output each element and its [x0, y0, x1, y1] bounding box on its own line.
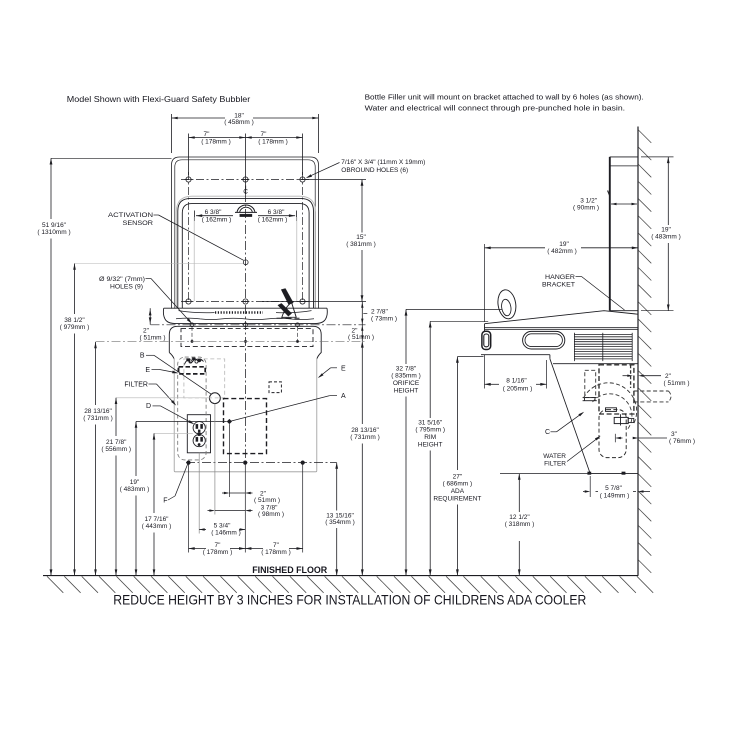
extension line sensor height (gray)	[75, 263, 244, 265]
dashed drain elbow arc outer	[584, 383, 637, 424]
duplex outlet lower receptacle	[193, 435, 205, 447]
dashed water riser	[585, 370, 596, 397]
dimension 12 1/2 apron height	[505, 474, 535, 576]
activation sensor leader	[159, 215, 244, 260]
svg-text:( 458mm ): ( 458mm )	[224, 119, 254, 126]
dimension 2 inch right of basin	[348, 325, 374, 342]
bubbler (side view)	[496, 289, 518, 321]
svg-text:( 381mm ): ( 381mm )	[346, 241, 376, 248]
svg-text:7/16" X 3/4" (11mm X 19mm): 7/16" X 3/4" (11mm X 19mm)	[341, 159, 425, 166]
wall section line	[637, 127, 639, 576]
svg-text:FINISHED FLOOR: FINISHED FLOOR	[252, 565, 327, 575]
svg-text:( 482mm ): ( 482mm )	[547, 248, 577, 255]
apron diagonal	[550, 359, 590, 474]
centerline vertical right holes	[302, 172, 304, 302]
basin bowl scallops	[176, 318, 314, 319]
obround mounting hole bottom-left	[185, 299, 193, 304]
svg-text:( 51mm ): ( 51mm )	[254, 497, 280, 504]
extension line orifice height	[406, 308, 502, 310]
dimension 31 5/16 rim height	[415, 321, 445, 575]
svg-text:( 979mm ): ( 979mm )	[60, 324, 90, 331]
label F	[163, 496, 175, 504]
recess inner wall	[182, 204, 309, 309]
dimension 13 15/16 bottom row height	[325, 463, 355, 576]
leader hanger bracket	[582, 277, 625, 311]
cabinet lower edge line (side)	[553, 363, 638, 365]
leader water filter	[567, 436, 601, 462]
mounting row bottom centerline	[186, 462, 337, 464]
svg-text:6 3/8": 6 3/8"	[268, 209, 285, 216]
svg-text:WATER: WATER	[543, 453, 566, 460]
label B	[140, 353, 154, 360]
svg-text:SENSOR: SENSOR	[123, 220, 154, 227]
extension drop from right hole	[302, 464, 304, 553]
flexi-guard bubbler base dashes	[277, 317, 300, 319]
dimension 38 1/2 sensor height	[60, 264, 90, 576]
push pad end cap	[482, 331, 491, 349]
svg-text:( 51mm ): ( 51mm )	[140, 334, 166, 341]
dimension 32 7/8 orifice height	[391, 309, 421, 575]
svg-text:HANGER: HANGER	[545, 274, 575, 281]
svg-text:( 73mm ): ( 73mm )	[371, 315, 397, 322]
dimension 2 inch (A to center)	[222, 490, 280, 504]
svg-text:( 354mm ): ( 354mm )	[325, 519, 355, 526]
svg-text:2": 2"	[665, 373, 672, 380]
waterline inlet circle B target	[210, 393, 221, 404]
svg-text:RIM: RIM	[424, 434, 436, 441]
svg-text:REDUCE HEIGHT BY 3 INCHES FOR: REDUCE HEIGHT BY 3 INCHES FOR INSTALLATI…	[113, 593, 586, 608]
centerline through top hole row	[181, 179, 310, 181]
cooler mounting hole left	[189, 323, 195, 327]
dimension 3 7/8 (B to center)	[208, 504, 285, 518]
svg-text:B: B	[140, 353, 145, 360]
svg-text:( 90mm ): ( 90mm )	[573, 205, 599, 212]
extension line inlet height (gray)	[116, 397, 210, 399]
extension drop from inlet B	[214, 404, 216, 515]
leader 9/32 holes	[151, 279, 192, 324]
svg-text:8 1/16": 8 1/16"	[506, 378, 527, 385]
duplex outlet upper receptacle	[193, 422, 205, 434]
svg-text:REQUIREMENT: REQUIREMENT	[433, 496, 481, 503]
extension line ada requirement	[457, 356, 483, 358]
obround mounting hole bottom-center	[242, 299, 250, 304]
svg-text:( 556mm ): ( 556mm )	[101, 446, 131, 453]
dimension 21 7/8 inlet height	[101, 398, 131, 576]
svg-text:D: D	[146, 403, 151, 410]
svg-text:27": 27"	[453, 474, 463, 481]
svg-text:HOLES (9): HOLES (9)	[110, 283, 143, 290]
dimension 27 ADA requirement	[433, 357, 481, 576]
extension drop from A point	[228, 424, 230, 497]
hole row connector right	[297, 327, 299, 340]
svg-text:7": 7"	[215, 542, 222, 549]
obround mounting hole bottom-right	[299, 299, 307, 304]
svg-text:BRACKET: BRACKET	[542, 281, 575, 288]
svg-text:( 443mm ): ( 443mm )	[142, 523, 172, 530]
label E left	[145, 367, 159, 374]
bubbler boss (front view)	[235, 205, 257, 217]
dimension 7 inch left hole spacing	[189, 131, 246, 193]
extension line A point height	[136, 421, 227, 423]
dimension 18 inch overall width	[172, 112, 319, 153]
flexi-guard bubbler guard band	[278, 303, 292, 316]
lower mounting hole dot center	[244, 340, 247, 343]
water connection scribble detail	[187, 358, 201, 364]
basin inner curves	[179, 311, 312, 313]
svg-text:Ø 9/32" (7mm): Ø 9/32" (7mm)	[99, 276, 145, 283]
apron step	[549, 355, 551, 359]
svg-text:7": 7"	[204, 131, 211, 138]
bracket clip tick on panel edge	[608, 191, 610, 196]
cooler mounting hole center	[244, 323, 248, 327]
hole row connector left	[191, 327, 193, 340]
svg-text:( 178mm ): ( 178mm )	[258, 139, 288, 146]
obround mounting hole top-right	[299, 177, 307, 182]
svg-text:FILTER: FILTER	[124, 381, 148, 388]
label FILTER	[124, 381, 156, 388]
dimension 6 3/8 left	[195, 209, 234, 224]
label E right	[331, 365, 346, 372]
junction box bold dashed	[179, 367, 206, 374]
svg-text:( 51mm ): ( 51mm )	[664, 380, 690, 387]
leader C	[557, 412, 585, 432]
riser flange marks	[583, 398, 597, 401]
lower mounting hole dot right	[296, 340, 299, 343]
extension line outlet height (gray)	[154, 432, 193, 434]
svg-text:( 835mm ): ( 835mm )	[391, 373, 421, 380]
svg-text:FILTER: FILTER	[544, 460, 566, 467]
basin rim top line	[172, 307, 318, 309]
svg-text:( 318mm ): ( 318mm )	[505, 521, 535, 528]
extension line apron bottom	[500, 473, 588, 475]
bottom mounting hole center	[244, 461, 247, 464]
svg-text:( 686mm ): ( 686mm )	[443, 481, 473, 488]
flexi-guard bubbler spout (front view)	[281, 289, 293, 305]
svg-text:32 7/8": 32 7/8"	[396, 366, 417, 373]
dimension 7 inch bottom left	[189, 542, 246, 556]
wall hatching	[638, 130, 651, 573]
dimension 5 3/4 (outlet to center)	[199, 522, 245, 536]
leader D to outlet	[161, 406, 195, 424]
leader E right	[318, 368, 331, 378]
floor hatching	[47, 576, 653, 593]
svg-text:5 3/4": 5 3/4"	[214, 522, 231, 529]
electrical outlet box	[187, 415, 210, 453]
bottom mounting hole left	[187, 461, 190, 464]
svg-text:( 731mm ): ( 731mm )	[350, 434, 380, 441]
outlet cover plate dashed (rounded)	[178, 357, 206, 460]
svg-text:6 3/8": 6 3/8"	[205, 209, 222, 216]
extension drop line left 6 3/8	[193, 217, 195, 301]
label 9/32 holes	[99, 276, 151, 291]
label hanger bracket	[542, 274, 582, 289]
svg-text:E: E	[341, 365, 346, 372]
svg-text:( 146mm ): ( 146mm )	[211, 529, 241, 536]
dimension 5 7/8 apron from wall	[583, 476, 650, 499]
outlet connector bar	[198, 433, 201, 436]
svg-text:3 1/2": 3 1/2"	[580, 198, 597, 205]
bottom mounting hole right	[301, 461, 304, 464]
svg-text:5 7/8": 5 7/8"	[605, 485, 622, 492]
mounting plate dashed rectangle	[181, 329, 313, 347]
cooler cabinet lower body (hidden outline)	[174, 358, 317, 472]
svg-text:HEIGHT: HEIGHT	[394, 388, 419, 395]
svg-text:( 149mm ): ( 149mm )	[600, 492, 630, 499]
obround mounting hole top-left	[185, 177, 193, 182]
svg-text:( 483mm ): ( 483mm )	[120, 486, 150, 493]
dimension 6 3/8 right	[258, 209, 297, 224]
centerline vertical main (panel center)	[245, 193, 247, 462]
svg-text:E: E	[145, 367, 150, 374]
activation sensor target circle	[243, 260, 248, 265]
svg-text:Water and electrical will conn: Water and electrical will connect throug…	[365, 104, 625, 113]
dashed water filter cartridge	[599, 410, 626, 458]
leader A to junction point	[229, 396, 329, 422]
leader E left	[160, 370, 179, 374]
svg-text:2": 2"	[143, 327, 150, 334]
svg-text:HEIGHT: HEIGHT	[418, 442, 443, 449]
svg-text:( 1310mm ): ( 1310mm )	[37, 229, 70, 236]
dimension 7 inch bottom right	[245, 542, 303, 556]
svg-text:3": 3"	[671, 431, 678, 438]
lower mounting hole dot left	[191, 340, 194, 343]
bottle filler panel (side view)	[610, 157, 638, 311]
extension drop from outlet	[198, 453, 200, 534]
basin drain strainer (dotted)	[215, 311, 263, 313]
svg-text:( 731mm ): ( 731mm )	[83, 415, 113, 422]
bottle filler panel outline (front view)	[172, 157, 319, 309]
svg-text:31 5/16": 31 5/16"	[418, 420, 443, 427]
leader B to inlet circle	[154, 355, 211, 394]
leader obround holes	[306, 163, 340, 179]
dashed drain pipe through wall	[634, 391, 671, 402]
extension line panel top	[51, 157, 172, 159]
ventilation grille	[574, 333, 632, 361]
dimension 2 inch drain from wall	[623, 373, 690, 387]
centerline vertical left holes	[188, 172, 190, 302]
apron anchor tick right	[622, 472, 625, 475]
svg-text:C: C	[545, 429, 550, 436]
svg-text:( 76mm ): ( 76mm )	[669, 438, 695, 445]
dashed tank outline	[599, 365, 634, 414]
dimension 28 13/16 right	[350, 341, 380, 575]
svg-text:OBROUND HOLES (6): OBROUND HOLES (6)	[341, 167, 408, 174]
svg-text:A: A	[341, 393, 346, 400]
cooler cabinet top section	[169, 326, 321, 359]
svg-text:( 178mm ): ( 178mm )	[203, 549, 233, 556]
svg-text:ADA: ADA	[451, 488, 465, 495]
dimension 3 inch valve from wall	[615, 431, 695, 445]
in-wall recess box A (bold dashed)	[224, 399, 267, 454]
dimension 3 1/2 panel depth	[573, 198, 637, 212]
svg-text:( 51mm ): ( 51mm )	[348, 334, 374, 341]
extension drop from F hole	[188, 464, 190, 553]
svg-text:7": 7"	[261, 131, 268, 138]
extension line cabinet top 28-13/16	[96, 340, 365, 342]
obround mounting hole top-center	[242, 177, 250, 182]
dimension 51 9/16 overall height	[37, 158, 70, 575]
recess outer wall	[178, 198, 314, 308]
dimension 2 7/8 holes to mounting row	[361, 302, 397, 325]
svg-text:Bottle Filler unit will mount: Bottle Filler unit will mount on bracket…	[365, 93, 644, 102]
cooler mounting centerline row	[151, 324, 366, 326]
small dashed knockout square	[269, 382, 281, 393]
svg-text:F: F	[163, 497, 167, 504]
finished floor line	[43, 575, 638, 577]
apron anchor tick left	[588, 472, 591, 475]
dashed electrical drop at wall	[630, 365, 632, 388]
label D	[146, 403, 161, 410]
svg-text:( 162mm ): ( 162mm )	[258, 217, 288, 224]
centerline through bottom hole row	[181, 301, 310, 303]
recessed oblong slot (side)	[523, 331, 565, 349]
svg-text:Model Shown with Flexi-Guard S: Model Shown with Flexi-Guard Safety Bubb…	[67, 95, 251, 104]
water connection scribble	[185, 359, 204, 365]
cooler top surface (side view)	[485, 311, 639, 324]
cooler front face bottom edge	[481, 354, 550, 356]
svg-text:( 205mm ): ( 205mm )	[503, 385, 533, 392]
activation sensor label	[108, 212, 159, 227]
cooler top edge lines	[485, 324, 639, 332]
dimension 15 inch hole spacing vertical	[262, 180, 376, 302]
junction point A marker	[227, 419, 232, 424]
svg-text:( 98mm ): ( 98mm )	[258, 511, 284, 518]
dimension 2 inch left of basin	[140, 308, 166, 341]
label C	[545, 429, 557, 436]
svg-text:ACTIVATION: ACTIVATION	[108, 212, 153, 219]
svg-text:2 7/8": 2 7/8"	[371, 308, 388, 315]
dimension 8 1/16 front to step	[485, 355, 547, 392]
bottle filler panel inner edge	[175, 160, 315, 309]
extension drop from center hole	[244, 464, 246, 553]
svg-text:( 178mm ): ( 178mm )	[261, 549, 291, 556]
extension line rim height	[430, 320, 488, 322]
svg-text:( 178mm ): ( 178mm )	[201, 139, 231, 146]
label obround holes	[341, 159, 425, 174]
svg-text:7": 7"	[273, 542, 280, 549]
svg-text:ORIFICE: ORIFICE	[393, 380, 420, 387]
dimension 7 inch right hole spacing	[246, 131, 303, 175]
label water filter	[543, 453, 566, 468]
dimension 19 panel height (side)	[641, 157, 681, 311]
valve assembly	[606, 408, 634, 426]
dimension 17 7/16 outlet height	[142, 433, 172, 575]
dashed drain elbow arc inner	[593, 394, 632, 430]
basin outline (front view)	[163, 308, 327, 323]
centerline symbol CL	[243, 186, 248, 196]
dimension 19 depth to wall	[485, 241, 639, 322]
leader F to mounting hole	[175, 464, 188, 496]
svg-text:( 162mm ): ( 162mm )	[202, 217, 232, 224]
recess outer flange (gray)	[176, 196, 315, 308]
svg-text:( 483mm ): ( 483mm )	[651, 234, 681, 241]
cooler mounting hole right	[295, 323, 301, 327]
label A	[330, 393, 346, 400]
apron bottom edge	[590, 473, 638, 475]
dimension 28 13/16 left	[83, 342, 113, 576]
leader FILTER	[157, 384, 177, 406]
junction area dashed rect (gray)	[184, 359, 225, 398]
dimension 19 A-point height	[120, 422, 150, 576]
svg-text:( 795mm ): ( 795mm )	[415, 427, 445, 434]
flexi-guard bubbler cone mount	[282, 303, 296, 318]
extension drop line right 6 3/8	[296, 217, 298, 301]
